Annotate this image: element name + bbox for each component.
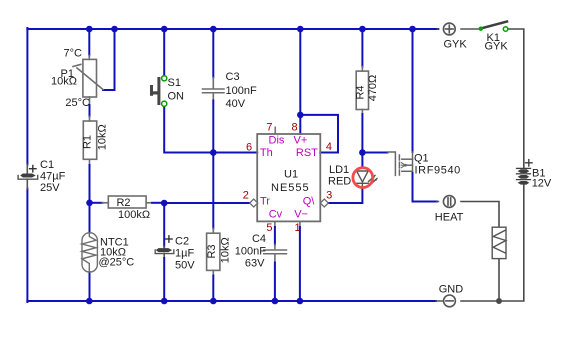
wire V+ pin 8 to top rail	[299, 29, 301, 134]
svg-text:LD1: LD1	[329, 164, 349, 176]
node C gate	[359, 149, 366, 156]
wire P1 top lead	[88, 29, 90, 59]
wire node B to C2	[163, 203, 165, 249]
svg-text:4: 4	[326, 141, 332, 153]
connector HEAT	[443, 196, 455, 208]
svg-text:U1: U1	[284, 169, 298, 181]
node top V+	[297, 26, 304, 33]
node heater/GND	[496, 298, 502, 304]
wire Q1 drain to top rail	[412, 29, 414, 159]
wire battery to GND rail	[461, 185, 524, 301]
wire left rail lower	[26, 189, 28, 303]
svg-text:C2: C2	[175, 236, 189, 248]
svg-text:10kΩ: 10kΩ	[220, 237, 232, 263]
node B R2/Tr/C2	[161, 200, 168, 207]
pushbutton S1	[150, 76, 167, 107]
op-amp U1 NE555 box	[257, 134, 320, 221]
svg-text:Th: Th	[260, 147, 273, 159]
capacitor C4	[264, 250, 287, 254]
capacitor C2	[155, 236, 174, 254]
capacitor C3	[203, 89, 225, 93]
wire C3 top lead	[212, 29, 214, 89]
wire top rail	[27, 28, 438, 30]
svg-text:100nF: 100nF	[235, 246, 266, 258]
switch K1	[479, 22, 508, 32]
wire node C to Q1 gate	[362, 152, 387, 154]
transistor Q1 IRF9540	[388, 152, 413, 175]
wire C3 down to R3	[212, 94, 214, 234]
node bottom R3	[210, 298, 217, 305]
svg-text:S1: S1	[168, 77, 181, 89]
svg-text:25°C: 25°C	[65, 97, 90, 109]
svg-text:Tr: Tr	[260, 196, 270, 208]
node bottom NTC	[86, 298, 93, 305]
svg-text:10kΩ: 10kΩ	[51, 76, 77, 88]
svg-text:GND: GND	[439, 284, 464, 296]
svg-text:IRF9540: IRF9540	[415, 165, 461, 177]
node top C3	[210, 26, 217, 33]
svg-text:@25°C: @25°C	[99, 257, 135, 269]
wire R2 to node B	[146, 202, 164, 204]
wire Q1 source to HEAT	[413, 173, 438, 202]
svg-text:ON: ON	[168, 91, 185, 103]
svg-text:12V: 12V	[532, 178, 552, 190]
pin 2 diamond	[250, 199, 258, 207]
svg-text:NE555: NE555	[271, 182, 310, 194]
pin 7 stub	[274, 127, 276, 134]
wire stub to GYK connector	[438, 28, 439, 30]
connector GND	[444, 295, 456, 307]
svg-text:100kΩ: 100kΩ	[118, 209, 150, 221]
wire GYK to K1	[461, 28, 479, 30]
node top wiper	[111, 26, 118, 33]
svg-text:47µF: 47µF	[40, 171, 66, 183]
svg-text:50V: 50V	[175, 260, 195, 272]
wire C2 to bottom rail	[163, 254, 165, 302]
wire R3 to bottom rail	[212, 270, 214, 301]
svg-text:10kΩ: 10kΩ	[97, 124, 109, 150]
wire pin 3 Q to LED cathode	[328, 187, 362, 203]
wire pin 5 Cv to C4	[274, 222, 276, 249]
wire bottom rail	[27, 300, 436, 302]
capacitor C1	[18, 165, 38, 189]
wire S1 bottom to Th	[164, 107, 257, 153]
svg-text:Cv: Cv	[269, 209, 283, 221]
svg-text:3: 3	[326, 189, 332, 201]
svg-text:GYK: GYK	[444, 39, 468, 51]
wire node B to pin 2 Tr	[164, 202, 250, 204]
node V+/RST	[297, 112, 304, 119]
svg-text:RED: RED	[328, 176, 351, 188]
svg-text:GYK: GYK	[485, 41, 509, 53]
svg-text:25V: 25V	[40, 182, 60, 194]
svg-text:100nF: 100nF	[226, 85, 257, 97]
svg-text:R2: R2	[116, 197, 130, 209]
wire pin 1 V- to bottom rail	[299, 222, 301, 302]
svg-text:Q\: Q\	[303, 196, 316, 208]
svg-text:C1: C1	[40, 159, 54, 171]
battery B1	[517, 160, 533, 184]
red annotation circle around LD1	[353, 168, 373, 188]
resistor R3	[207, 233, 220, 270]
node top S1	[161, 26, 168, 33]
svg-text:7: 7	[266, 122, 272, 134]
svg-text:6: 6	[246, 142, 252, 154]
svg-text:Dis: Dis	[269, 135, 285, 147]
svg-text:7°C: 7°C	[64, 48, 83, 60]
wire node A to NTC1	[89, 203, 91, 233]
connector GYK	[443, 23, 455, 35]
wire P1 wiper to top rail	[103, 29, 115, 90]
wire R4 top lead	[361, 29, 363, 71]
wire stub to GND connector	[436, 300, 444, 302]
heater element	[492, 227, 506, 258]
wire left rail upper	[26, 28, 28, 165]
wire R1 to node A	[89, 159, 91, 203]
node bottom C4	[272, 298, 279, 305]
node top R4	[359, 26, 366, 33]
node A R1/R2/NTC	[86, 200, 93, 207]
svg-text:63V: 63V	[245, 258, 265, 270]
wire HEAT to heater	[461, 202, 499, 228]
potentiometer P1	[73, 59, 103, 97]
wire node C to LED anode	[361, 153, 363, 168]
svg-text:5: 5	[266, 222, 272, 234]
svg-text:R3: R3	[206, 244, 218, 258]
wire R4 bottom to node C	[361, 110, 363, 153]
svg-text:1: 1	[295, 222, 301, 234]
svg-text:8: 8	[291, 122, 297, 134]
thermistor NTC1	[82, 233, 97, 272]
svg-text:V−: V−	[294, 209, 308, 221]
wire P1 to R1	[89, 97, 91, 121]
svg-text:R4: R4	[354, 85, 366, 99]
svg-text:470Ω: 470Ω	[367, 75, 379, 102]
svg-text:RST: RST	[296, 147, 318, 159]
LED LD1	[357, 171, 377, 187]
wire heater to GND rail	[498, 259, 500, 301]
resistor R4	[356, 71, 368, 109]
wire stub to HEAT connector	[437, 201, 439, 203]
node top Q1	[409, 26, 416, 33]
svg-text:V+: V+	[294, 135, 308, 147]
wire RST loop	[300, 115, 338, 153]
wire K1 to battery	[508, 29, 524, 168]
wire S1 top	[163, 29, 165, 76]
resistor R2	[108, 196, 146, 208]
svg-text:40V: 40V	[226, 98, 246, 110]
svg-text:HEAT: HEAT	[435, 212, 464, 224]
node top P1	[86, 26, 93, 33]
resistor R1	[83, 121, 96, 159]
svg-text:C4: C4	[252, 233, 266, 245]
svg-text:R1: R1	[82, 135, 94, 149]
svg-text:C3: C3	[226, 71, 240, 83]
node Th/C3	[210, 149, 217, 156]
svg-text:Q1: Q1	[414, 153, 429, 165]
pin 3 diamond	[320, 199, 328, 207]
svg-text:2: 2	[243, 189, 249, 201]
node bottom C2	[161, 298, 168, 305]
wire C4 to bottom rail	[274, 255, 276, 302]
wire node A to R2	[90, 202, 109, 204]
wire NTC1 to bottom rail	[89, 272, 91, 301]
svg-text:1µF: 1µF	[175, 248, 194, 260]
node bottom V-	[297, 298, 304, 305]
